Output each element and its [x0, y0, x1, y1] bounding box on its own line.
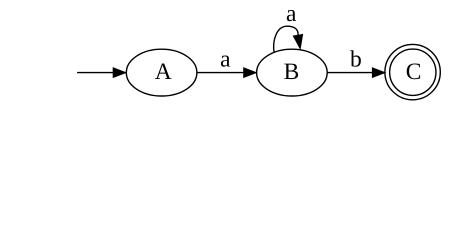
start arrowhead — [113, 68, 126, 78]
arrowhead A to B — [244, 68, 257, 78]
wire B to C — [327, 72, 373, 74]
state B — [257, 49, 328, 96]
self-loop wire on B — [274, 26, 298, 52]
svg-text:C: C — [406, 59, 422, 85]
arrowhead B to C — [372, 68, 385, 78]
state A — [126, 49, 197, 96]
accepting state C outer circle — [385, 44, 440, 99]
svg-text:A: A — [155, 59, 172, 85]
start wire — [77, 72, 113, 74]
self-loop arrowhead — [293, 35, 302, 49]
accepting state C inner circle — [390, 49, 436, 95]
wire A to B — [197, 72, 244, 74]
svg-text:B: B — [284, 59, 300, 85]
svg-text:a: a — [220, 46, 231, 72]
svg-text:a: a — [286, 1, 297, 27]
svg-text:b: b — [350, 46, 362, 72]
